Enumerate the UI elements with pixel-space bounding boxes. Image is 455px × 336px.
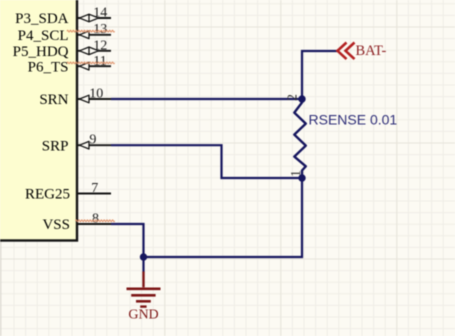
svg-text:VSS: VSS [42, 217, 70, 233]
error squiggle on pin 13 [67, 30, 115, 32]
pin 12 P5_HDQ pin line [78, 50, 111, 52]
IC body (partial, fuel gauge) [0, 0, 77, 241]
power port BAT- chevron symbol [338, 43, 347, 60]
svg-text:13: 13 [93, 22, 107, 37]
pin 9 SRP pin line [78, 144, 111, 146]
wire BAT- net vertical [302, 51, 337, 99]
svg-text:RSENSE 0.01: RSENSE 0.01 [309, 112, 398, 128]
ground symbol bars [127, 287, 161, 290]
pin 11 P6_TS pin line [78, 65, 111, 67]
svg-text:10: 10 [89, 86, 103, 101]
svg-text:REG25: REG25 [25, 187, 70, 203]
junction node SRP/RSENSE [298, 174, 305, 181]
wire bottom net [144, 178, 303, 257]
error squiggle on pin 8 [76, 220, 115, 222]
pin 14 I/O arrow symbol [80, 14, 99, 22]
svg-text:9: 9 [89, 133, 96, 148]
pin 14 P3_SDA pin line [78, 17, 111, 19]
svg-text:P4_SCL: P4_SCL [18, 28, 69, 44]
svg-text:8: 8 [92, 211, 99, 226]
svg-text:12: 12 [93, 38, 107, 53]
wire VSS net [111, 224, 144, 257]
wire SRP net [111, 145, 302, 178]
pin 8 VSS pin line [78, 223, 111, 225]
ground symbol stem [142, 272, 144, 288]
pin 11 input arrow symbol [80, 62, 90, 70]
svg-text:P3_SDA: P3_SDA [15, 11, 69, 27]
pin 10 SRN pin line [78, 98, 111, 100]
svg-text:P6_TS: P6_TS [28, 60, 69, 76]
pin 13 P4_SCL pin line [78, 34, 111, 36]
pin 10 input arrow symbol [80, 95, 90, 103]
junction node VSS/GND [140, 253, 147, 260]
error squiggle on pin 11 [67, 62, 115, 64]
pin 13 input arrow symbol [80, 31, 90, 39]
svg-text:14: 14 [93, 5, 107, 20]
svg-text:BAT-: BAT- [356, 43, 387, 59]
svg-text:GND: GND [128, 307, 158, 322]
svg-text:P5_HDQ: P5_HDQ [13, 44, 69, 60]
pin 7 REG25 pin line [78, 193, 111, 195]
svg-text:2: 2 [285, 94, 300, 101]
resistor RSENSE body zigzag [294, 99, 306, 178]
pin 9 input arrow symbol [80, 141, 90, 149]
svg-text:SRN: SRN [39, 92, 68, 108]
svg-text:SRP: SRP [42, 138, 69, 154]
wire GND stub [142, 257, 144, 272]
sheet left edge [0, 239, 2, 336]
svg-text:11: 11 [93, 54, 106, 69]
junction node SRN/BAT- [298, 95, 305, 102]
wire SRN net [111, 98, 302, 100]
svg-text:7: 7 [91, 181, 98, 196]
pin 12 I/O arrow symbol [80, 47, 99, 55]
